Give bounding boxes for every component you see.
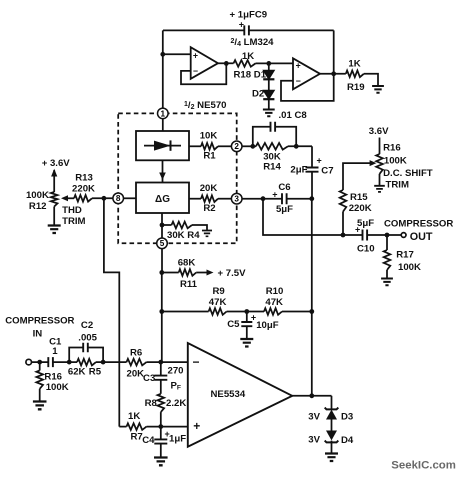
svg-text:20K: 20K: [200, 183, 218, 194]
svg-text:R10: R10: [266, 286, 284, 297]
svg-text:D3: D3: [341, 411, 353, 422]
svg-text:.01 C8: .01 C8: [279, 110, 308, 121]
svg-text:3V: 3V: [308, 434, 320, 445]
svg-text:R18 D1: R18 D1: [234, 70, 267, 81]
svg-text:C5: C5: [227, 319, 240, 330]
svg-text:3.6V: 3.6V: [369, 126, 389, 137]
svg-text:+: +: [272, 189, 277, 199]
svg-text:R9: R9: [212, 286, 224, 297]
svg-text:100K: 100K: [46, 382, 69, 393]
svg-text:+ 1μFC9: + 1μFC9: [230, 9, 268, 20]
svg-text:+: +: [193, 50, 198, 60]
svg-text:NE5534: NE5534: [211, 389, 246, 400]
svg-text:SeekIC.com: SeekIC.com: [391, 459, 456, 471]
svg-text:OUT: OUT: [410, 231, 433, 243]
svg-text:1K: 1K: [348, 58, 360, 69]
svg-text:THD: THD: [62, 205, 82, 216]
svg-text:100K: 100K: [398, 262, 421, 273]
svg-text:C6: C6: [278, 182, 290, 193]
svg-text:R1: R1: [203, 150, 216, 161]
svg-text:−: −: [193, 66, 198, 76]
svg-text:1K: 1K: [242, 51, 254, 62]
svg-text:R11: R11: [180, 279, 198, 290]
svg-text:D4: D4: [341, 435, 354, 446]
svg-text:−: −: [192, 355, 199, 369]
svg-text:3V: 3V: [308, 411, 320, 422]
svg-text:270: 270: [168, 365, 184, 376]
svg-text:TRIM: TRIM: [386, 180, 409, 191]
svg-text:R16: R16: [44, 371, 62, 382]
svg-text:2μF: 2μF: [290, 165, 307, 176]
svg-text:+: +: [296, 61, 301, 71]
svg-text:+ 3.6V: + 3.6V: [42, 158, 71, 169]
svg-text:IN: IN: [33, 328, 43, 339]
svg-text:10K: 10K: [200, 131, 218, 142]
svg-text:COMPRESSOR: COMPRESSOR: [384, 219, 453, 230]
svg-text:+: +: [317, 155, 322, 165]
svg-text:30K R4: 30K R4: [167, 230, 200, 241]
svg-text:5μF: 5μF: [276, 204, 293, 215]
svg-text:R5: R5: [89, 366, 102, 377]
svg-text:2.2K: 2.2K: [166, 398, 186, 409]
svg-text:D2: D2: [252, 88, 264, 99]
svg-text:10μF: 10μF: [256, 320, 279, 331]
svg-text:COMPRESSOR: COMPRESSOR: [5, 315, 74, 326]
svg-text:1: 1: [161, 109, 166, 118]
svg-text:+: +: [239, 19, 244, 29]
svg-text:R19: R19: [347, 82, 365, 93]
svg-text:C2: C2: [81, 320, 93, 331]
svg-text:R7: R7: [131, 431, 143, 442]
svg-text:.005: .005: [78, 332, 97, 343]
svg-text:1K: 1K: [128, 411, 140, 422]
svg-text:+ 7.5V: + 7.5V: [218, 268, 247, 279]
svg-text:R8: R8: [145, 398, 158, 409]
svg-text:C3: C3: [143, 373, 155, 384]
svg-text:8: 8: [116, 194, 121, 203]
svg-text:R12: R12: [29, 201, 47, 212]
svg-text:68K: 68K: [178, 258, 196, 269]
svg-text:−: −: [296, 76, 301, 86]
svg-text:5μF: 5μF: [357, 218, 374, 229]
svg-text:C4: C4: [142, 435, 155, 446]
svg-text:ΔG: ΔG: [155, 194, 170, 205]
svg-text:C7: C7: [321, 165, 333, 176]
svg-text:R17: R17: [396, 249, 414, 260]
svg-text:1: 1: [52, 346, 58, 357]
svg-text:62K: 62K: [68, 366, 86, 377]
svg-text:C10: C10: [357, 243, 375, 254]
svg-text:R6: R6: [130, 347, 142, 358]
svg-text:1μF: 1μF: [169, 433, 186, 444]
svg-text:2: 2: [234, 142, 239, 151]
svg-text:220K: 220K: [72, 183, 95, 194]
svg-text:47K: 47K: [265, 297, 283, 308]
svg-text:47K: 47K: [209, 297, 227, 308]
svg-text:1/2 NE570: 1/2 NE570: [184, 100, 226, 111]
svg-text:100K: 100K: [26, 190, 49, 201]
svg-text:R16: R16: [383, 143, 401, 154]
svg-text:5: 5: [160, 239, 165, 248]
svg-text:R2: R2: [203, 203, 215, 214]
svg-text:TRIM: TRIM: [62, 216, 85, 227]
svg-text:2/4 LM324: 2/4 LM324: [231, 37, 275, 48]
svg-text:D.C. SHIFT: D.C. SHIFT: [383, 168, 433, 179]
svg-text:R13: R13: [75, 172, 93, 183]
svg-text:+: +: [193, 419, 200, 433]
svg-text:3: 3: [234, 195, 239, 204]
svg-text:100K: 100K: [384, 155, 407, 166]
svg-text:20K: 20K: [127, 368, 145, 379]
svg-text:R15: R15: [350, 192, 368, 203]
svg-text:R14: R14: [263, 161, 281, 172]
svg-text:220K: 220K: [349, 203, 372, 214]
